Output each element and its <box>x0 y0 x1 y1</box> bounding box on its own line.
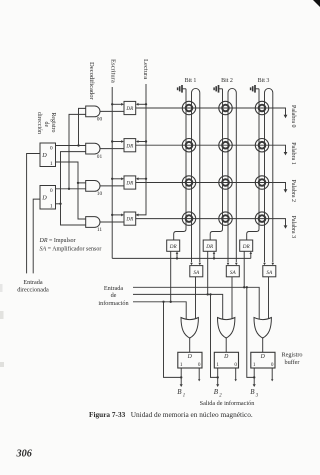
wire bit drive line 3 <box>247 89 259 240</box>
svg-text:00: 00 <box>97 117 103 123</box>
wire OR output to buffer FF 2 <box>225 338 227 352</box>
svg-text:2: 2 <box>219 393 222 398</box>
svg-text:DR: DR <box>205 244 214 250</box>
AND gate 00 (decoder) <box>86 106 100 117</box>
svg-text:Escritura: Escritura <box>110 59 117 83</box>
wire sense loop bit 1 <box>192 88 200 262</box>
node tee buffer FF 2 <box>217 376 219 378</box>
svg-text:direccionada: direccionada <box>17 287 49 294</box>
arrow output B2 <box>216 384 219 387</box>
arrow word line row 1 <box>284 152 288 155</box>
core bit 3 word 2 <box>255 176 268 189</box>
arrow sense into SA left bit 2 <box>227 263 230 265</box>
svg-text:1: 1 <box>253 362 256 368</box>
wire sense loop bit 3 <box>265 88 273 262</box>
arrow sense into SA right bit 2 <box>235 263 238 265</box>
node tee buffer FF 3 <box>253 376 255 378</box>
arrow output B1 <box>180 384 183 387</box>
wire DR bit 3 data input <box>243 251 245 287</box>
OR gate bit 3 <box>254 318 271 339</box>
core bit 3 word 1 <box>255 139 268 152</box>
svg-text:SA: SA <box>266 270 273 276</box>
node Escritura tap row 1 <box>111 140 113 142</box>
wire branch up to gate 00 bottom input <box>69 114 86 188</box>
wire word line row 3 <box>136 219 286 226</box>
svg-text:DR: DR <box>242 244 251 250</box>
svg-text:1: 1 <box>50 204 53 210</box>
wire+arrow write strobe into DR bit 1 <box>176 253 178 258</box>
wire AND 00 output to word driver <box>100 110 124 112</box>
node FF2-1 branch <box>59 203 61 205</box>
wire bit drive line 2 <box>210 89 222 240</box>
svg-text:DR: DR <box>125 106 134 112</box>
node restore tap B2 <box>209 293 211 295</box>
wire FF1 D input down to address entry <box>27 154 40 274</box>
svg-text:3: 3 <box>256 393 259 398</box>
svg-text:0: 0 <box>50 188 53 194</box>
svg-text:DR = Impulsor: DR = Impulsor <box>39 238 76 244</box>
scan smudge left edge 1 <box>0 311 4 319</box>
svg-text:de: de <box>111 292 117 299</box>
buffer flip-flop B1 box <box>178 352 202 368</box>
bit driver DR box 1 <box>167 240 180 251</box>
AND gate 11 (decoder) <box>86 217 100 228</box>
svg-text:SA = Amplificador sensor: SA = Amplificador sensor <box>40 246 102 253</box>
arrow sense into SA left bit 1 <box>190 263 193 265</box>
svg-text:D: D <box>223 354 229 360</box>
node DR bit 3 data tap <box>243 286 245 288</box>
node FF1-0 branch <box>77 144 79 146</box>
arrow sense into SA right bit 1 <box>198 263 201 265</box>
svg-text:Bit 1: Bit 1 <box>185 78 197 84</box>
node strobe tap bit 1 <box>176 257 178 259</box>
buffer flip-flop B2 box <box>214 352 238 368</box>
svg-text:Bit 3: Bit 3 <box>258 78 270 84</box>
svg-text:306: 306 <box>16 449 33 460</box>
svg-text:D: D <box>41 152 47 159</box>
wire Escritura vertical <box>111 87 113 258</box>
svg-text:SA: SA <box>230 270 237 276</box>
wire+arrow Escritura into DR row 2 <box>112 178 122 180</box>
wire OR output to buffer FF 3 <box>262 338 264 352</box>
wire buffer FF 2 output 1 <box>217 368 219 384</box>
svg-text:B: B <box>214 388 219 396</box>
node restore tap B1 <box>162 301 164 303</box>
node FF2-0 branch <box>68 188 70 190</box>
svg-text:B: B <box>177 388 182 396</box>
wire buffer FF 3 output 0 stub <box>271 368 273 379</box>
wire branch down to gate 11 bottom input <box>61 204 86 225</box>
flip-flop FF2 box (address bit 2) <box>40 186 56 210</box>
sense amplifier SA box 3 <box>263 266 276 277</box>
wire buffer FF 2 output 0 stub <box>235 368 237 379</box>
bit driver DR box 2 <box>203 240 216 251</box>
wire data input line 1 <box>133 287 259 319</box>
core bit 2 word 0 <box>219 101 232 114</box>
svg-text:información: información <box>98 300 128 307</box>
svg-text:11: 11 <box>97 227 102 233</box>
svg-text:Registro: Registro <box>282 352 303 359</box>
svg-text:DR: DR <box>125 181 134 187</box>
svg-text:0: 0 <box>50 146 53 152</box>
page background artifact: black page-corner mark top right <box>313 0 320 7</box>
svg-text:Palabra 3: Palabra 3 <box>290 216 296 239</box>
OR gate bit 2 <box>218 318 235 339</box>
node Escritura tap row 3 <box>111 214 113 216</box>
svg-text:Bit 2: Bit 2 <box>221 78 233 84</box>
wire buffer FF 3 output 1 <box>253 368 255 384</box>
wire AND 11 output to word driver <box>100 221 124 223</box>
svg-text:0: 0 <box>198 362 201 368</box>
wire+arrow Lectura into DR row 2 <box>138 178 146 180</box>
node strobe tap bit 2 <box>213 257 215 259</box>
wire+arrow Escritura into DR row 3 <box>112 214 122 216</box>
wire+arrow Escritura into DR row 1 <box>112 141 122 143</box>
core bit 1 word 1 <box>182 139 195 152</box>
svg-text:Decodificador: Decodificador <box>88 62 95 101</box>
wire restore from B1 to data line <box>164 302 182 378</box>
svg-text:Palabra 0: Palabra 0 <box>290 105 296 128</box>
word driver DR row 3 box <box>124 212 136 225</box>
core bit 1 word 0 <box>182 101 195 114</box>
node Lectura tap row 2 <box>145 178 147 180</box>
wire DR bit 1 data input <box>170 251 172 301</box>
svg-text:B: B <box>250 388 255 396</box>
svg-text:01: 01 <box>97 154 103 160</box>
core bit 3 word 0 <box>255 101 268 114</box>
wire branch up to gate 00 top input <box>79 108 86 145</box>
svg-text:SA: SA <box>193 270 200 276</box>
wire Lectura vertical <box>136 84 146 215</box>
svg-text:1: 1 <box>183 393 185 398</box>
svg-text:Entrada: Entrada <box>23 279 42 286</box>
AND gate 10 (decoder) <box>86 181 100 192</box>
wire+arrow write strobe into DR bit 3 <box>250 253 252 258</box>
AND gate 01 (decoder) <box>86 143 100 154</box>
node FF1-1 branch at gate 10 <box>77 182 79 184</box>
wire sense loop bit 2 <box>228 88 236 262</box>
arrow word line row 3 <box>284 225 288 228</box>
svg-text:Registro: Registro <box>50 113 56 133</box>
wire write strobe line to bit drivers <box>112 257 251 259</box>
wire FF2 D input down to address entry <box>33 199 40 273</box>
node DR bit 1 data tap <box>170 301 172 303</box>
svg-text:1: 1 <box>216 362 219 368</box>
node tee buffer FF 1 <box>180 376 182 378</box>
word driver DR row 1 box <box>124 139 136 152</box>
svg-text:D: D <box>260 354 266 360</box>
svg-text:buffer: buffer <box>284 359 299 366</box>
core bit 2 word 3 <box>219 212 232 225</box>
svg-text:de: de <box>43 122 49 128</box>
node Escritura tap row 0 <box>111 103 113 105</box>
wire word line row 0 <box>136 108 286 115</box>
word driver DR row 2 box <box>124 176 136 189</box>
arrow Lectura into DR row 3 <box>136 213 139 216</box>
flip-flop FF1 box (address bit 1) <box>40 143 56 167</box>
ground symbol bit 2 <box>219 88 223 90</box>
arrow sense into SA right bit 3 <box>271 263 274 265</box>
arrow word line row 2 <box>284 189 288 192</box>
wire SA bit 1 output to OR gate <box>195 277 197 319</box>
wire SA bit 3 output to OR gate <box>268 277 270 319</box>
wire data input line 3 <box>133 302 186 319</box>
svg-text:1: 1 <box>180 362 183 368</box>
wire AND 10 output to word driver <box>100 185 124 187</box>
wire restore from B2 to data line <box>211 294 218 377</box>
svg-text:D: D <box>41 194 47 201</box>
wire word line row 2 <box>136 183 286 190</box>
svg-text:10: 10 <box>97 191 103 197</box>
wire buffer FF 1 output 1 <box>180 368 182 384</box>
wire FF2-0 to gate 10 bottom input <box>56 188 86 190</box>
OR gate bit 1 <box>181 318 198 339</box>
svg-text:1: 1 <box>50 161 53 167</box>
scan smudge left edge 0 <box>0 284 3 292</box>
arrow output B3 <box>253 384 256 387</box>
wire FF1-0 to gate 01 top input <box>56 145 86 147</box>
wire+arrow Lectura into DR row 1 <box>138 141 146 143</box>
svg-text:Entrada: Entrada <box>104 285 123 292</box>
core bit 1 word 2 <box>182 176 195 189</box>
svg-text:Salida de información: Salida de información <box>200 400 255 407</box>
svg-text:DR: DR <box>125 217 134 223</box>
wire FF2-1 output <box>56 203 61 205</box>
wire AND 01 output to word driver <box>100 148 124 150</box>
wire branch up to gate 01 bottom input <box>61 152 86 204</box>
svg-text:0: 0 <box>271 362 274 368</box>
ground symbol bit 1 <box>182 88 186 90</box>
wire OR output to buffer FF 1 <box>189 338 191 352</box>
svg-text:Palabra 1: Palabra 1 <box>290 142 296 165</box>
svg-text:dirección: dirección <box>36 112 42 134</box>
node Lectura tap row 1 <box>145 140 147 142</box>
scan smudge left edge 2 <box>0 362 4 367</box>
wire FF1-1 to gates 10/11 top inputs <box>56 162 86 183</box>
svg-text:0: 0 <box>234 362 237 368</box>
core bit 1 word 3 <box>182 212 195 225</box>
bit driver DR box 3 <box>240 240 253 251</box>
wire data input line 2 <box>133 294 223 319</box>
wire DR bit 2 data input <box>207 251 209 294</box>
node Escritura tap row 2 <box>111 178 113 180</box>
svg-text:DR: DR <box>169 244 178 250</box>
wire word line row 1 <box>136 145 286 152</box>
wire+arrow Escritura into DR row 0 <box>112 103 122 105</box>
core bit 2 word 1 <box>219 139 232 152</box>
wire+arrow Lectura into DR row 0 <box>138 103 146 105</box>
wire branch down to gate 11 top input <box>78 183 86 219</box>
svg-text:DR: DR <box>125 143 134 149</box>
wire bit drive line 1 <box>174 89 186 240</box>
core bit 3 word 3 <box>255 212 268 225</box>
ground symbol bit 3 <box>255 88 259 90</box>
sense amplifier SA box 1 <box>190 266 203 277</box>
buffer flip-flop B3 box <box>251 352 275 368</box>
node Lectura tap row 0 <box>145 103 147 105</box>
svg-text:Figura 7-33 Unidad de memori: Figura 7-33 Unidad de memoria en núcleo … <box>89 410 253 419</box>
word driver DR row 0 box <box>124 101 136 114</box>
wire restore from B3 to data line <box>247 287 254 377</box>
arrow word line row 0 <box>284 115 288 118</box>
svg-text:D: D <box>187 354 193 360</box>
wire+arrow write strobe into DR bit 2 <box>213 253 215 258</box>
core bit 2 word 2 <box>219 176 232 189</box>
svg-text:Lectura: Lectura <box>142 59 149 79</box>
arrow sense into SA left bit 3 <box>263 263 266 265</box>
sense amplifier SA box 2 <box>226 266 239 277</box>
svg-text:Palabra 2: Palabra 2 <box>290 180 296 203</box>
wire buffer FF 1 output 0 stub <box>198 368 200 379</box>
node restore tap B3 <box>246 286 248 288</box>
wire SA bit 2 output to OR gate <box>231 277 233 319</box>
node DR bit 2 data tap <box>207 293 209 295</box>
